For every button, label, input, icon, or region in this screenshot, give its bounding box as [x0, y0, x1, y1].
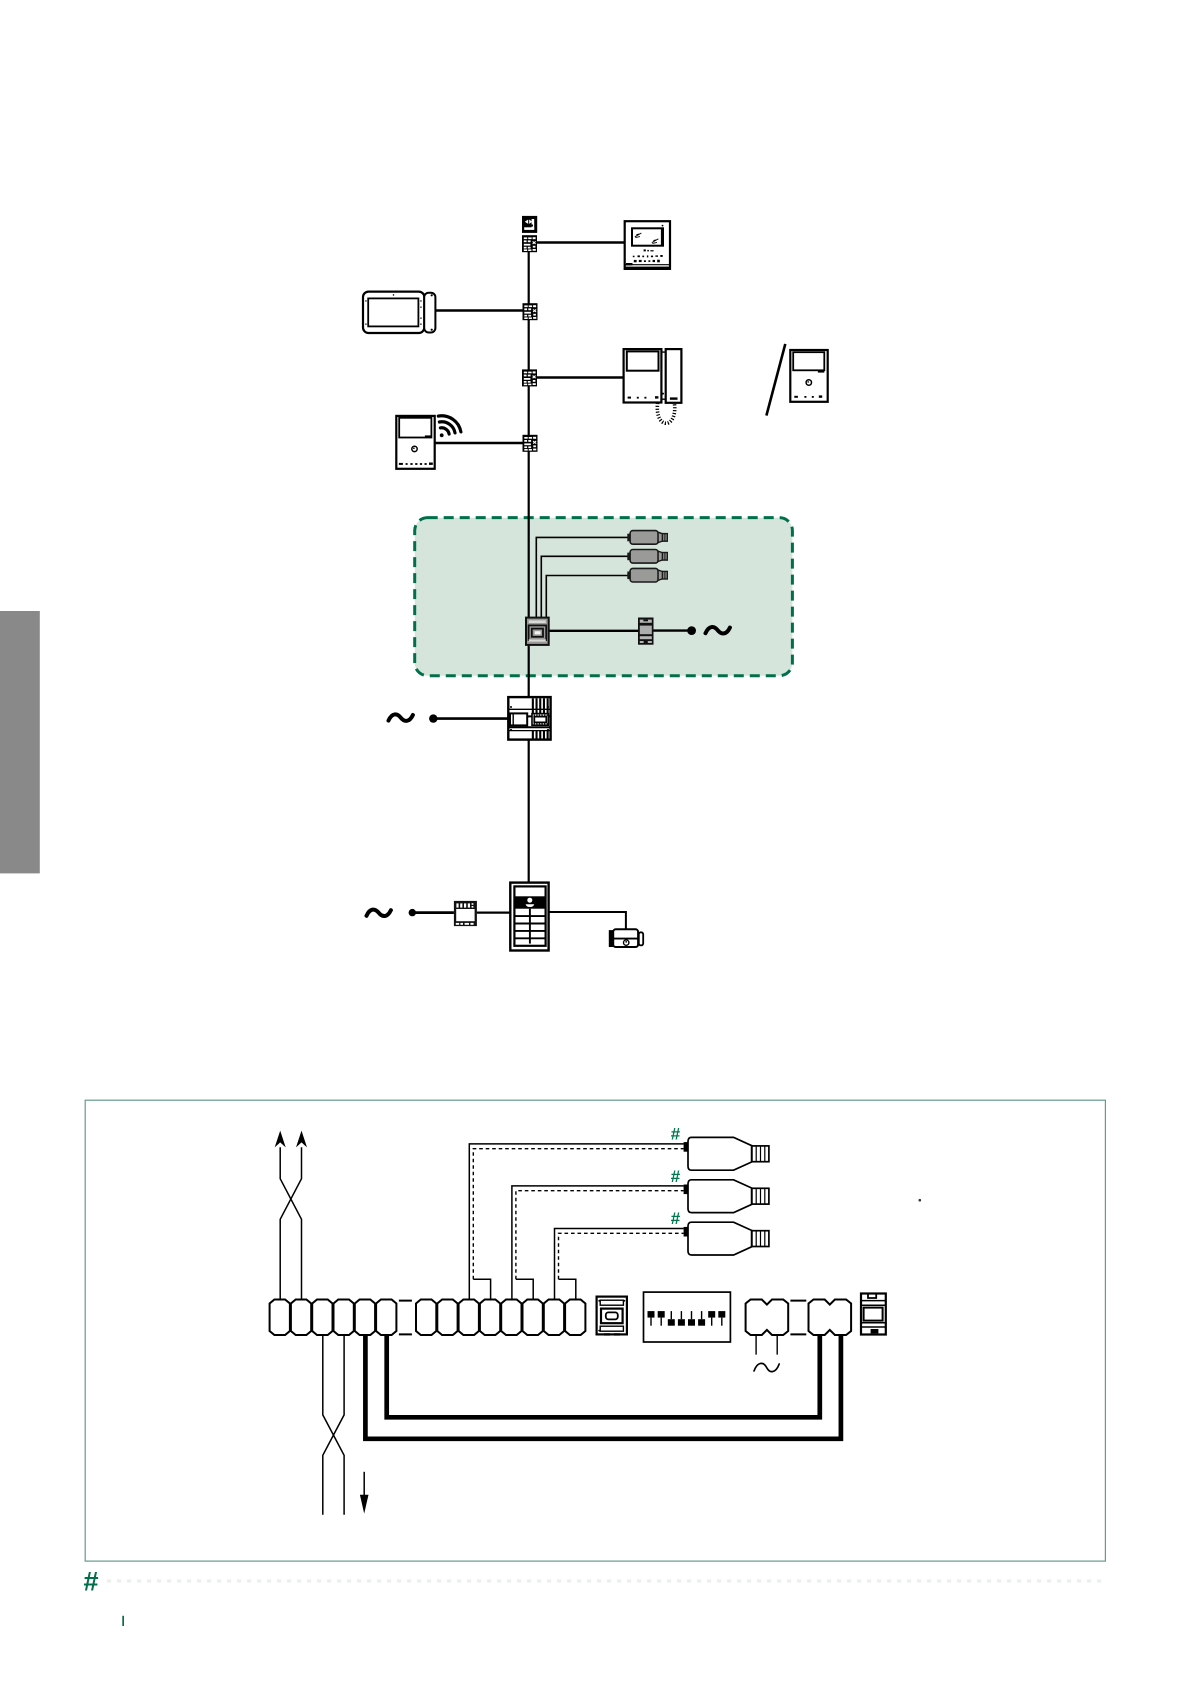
svg-text:#: # — [84, 1567, 99, 1597]
svg-text:#: # — [671, 1167, 681, 1186]
svg-text:#: # — [671, 1209, 681, 1228]
svg-text:#: # — [671, 1125, 681, 1144]
